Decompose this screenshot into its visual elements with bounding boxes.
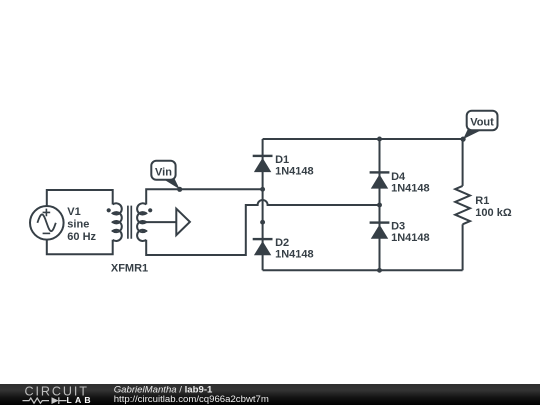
coil junction blob primary 2: [112, 221, 117, 224]
svg-text:LAB: LAB: [67, 395, 94, 405]
node dot Vout attach: [461, 137, 466, 142]
svg-text:V1: V1: [67, 206, 80, 218]
diode D1: [253, 155, 273, 172]
wire left branch (D1 D2 column): [262, 139, 264, 270]
svg-text:Vin: Vin: [155, 166, 172, 178]
coil junction blob secondary 2: [142, 221, 147, 224]
junction dot left branch upper: [260, 187, 265, 192]
arrow head (open triangle): [176, 209, 190, 235]
transformer core: [128, 206, 131, 239]
wire secondary top to node Vin: [146, 189, 262, 204]
node dot Vin attach: [177, 187, 182, 192]
svg-text:1N4148: 1N4148: [275, 166, 314, 178]
wire secondary center tap arrow line: [146, 221, 176, 223]
wire V1 top loop: [47, 190, 113, 206]
flag pointer Vin: [163, 179, 180, 190]
svg-text:D2: D2: [275, 237, 289, 249]
wire R1 bottom segment: [462, 224, 464, 270]
wire middle branch (D4 D3 column): [379, 139, 381, 270]
junction dot middle top: [377, 137, 382, 142]
V1 sine symbol: [37, 214, 55, 231]
svg-text:sine: sine: [67, 218, 89, 230]
label D2: [275, 237, 314, 261]
junction dot middle center: [377, 203, 382, 208]
resistor R1 zigzag: [455, 186, 470, 224]
svg-text:D3: D3: [391, 221, 405, 233]
flag Vout box: [467, 111, 498, 131]
wire V1 bottom loop: [47, 240, 113, 255]
flag Vin box: [151, 161, 175, 180]
flag pointer Vout: [463, 129, 484, 139]
label R1: [475, 195, 512, 219]
svg-text:60 Hz: 60 Hz: [67, 231, 96, 243]
wire R1 top segment: [462, 139, 464, 186]
junction dot middle bottom: [377, 268, 382, 273]
svg-text:XFMR1: XFMR1: [111, 262, 148, 274]
diode D2: [253, 238, 273, 255]
V1 minus sign: [43, 232, 51, 234]
wire top rail: [263, 138, 463, 140]
transformer XFMR1 secondary coil: [137, 203, 146, 241]
svg-text:100 kΩ: 100 kΩ: [475, 207, 512, 219]
coil junction blob primary 1: [112, 212, 117, 215]
coil junction blob secondary 1: [142, 212, 147, 215]
label D3: [391, 221, 430, 245]
wire bottom rail: [263, 269, 463, 271]
svg-text:1N4148: 1N4148: [391, 182, 430, 194]
V1 plus sign: [43, 209, 51, 217]
transformer XFMR1 primary coil: [113, 203, 122, 241]
phase dot primary: [107, 208, 111, 212]
svg-text:D1: D1: [275, 154, 289, 166]
diode D4: [370, 171, 390, 188]
svg-text:1N4148: 1N4148: [275, 249, 314, 261]
svg-text:http://circuitlab.com/cq966a2c: http://circuitlab.com/cq966a2cbwt7m: [114, 394, 269, 405]
logo diode triangle: [52, 397, 59, 404]
label D1: [275, 154, 314, 178]
diode D3: [370, 221, 390, 238]
junction dot left branch lower: [260, 220, 265, 225]
svg-text:D4: D4: [391, 171, 406, 183]
svg-text:R1: R1: [475, 195, 489, 207]
coil junction blob primary 3: [112, 230, 117, 233]
label D4: [391, 171, 430, 195]
coil junction blob secondary 3: [142, 230, 147, 233]
svg-text:1N4148: 1N4148: [391, 232, 430, 244]
wire secondary bottom with hop over left branch: [146, 200, 379, 255]
logo circuit glyph (resistor + diode): [23, 397, 67, 404]
voltage source V1 circle: [30, 206, 64, 240]
phase dot secondary: [148, 208, 152, 212]
svg-text:Vout: Vout: [470, 116, 494, 128]
label V1 value: [67, 206, 96, 243]
